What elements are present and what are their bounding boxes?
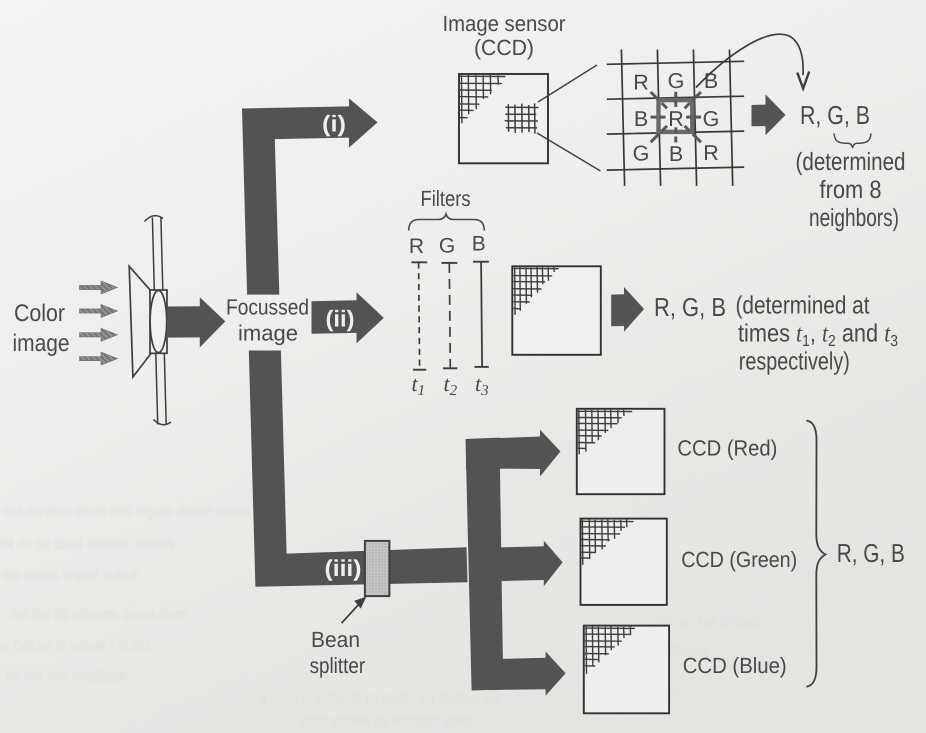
CCD hatch (i) bbox=[460, 74, 505, 123]
CCD Blue box bbox=[584, 626, 669, 714]
branch vertical bar bbox=[466, 438, 504, 691]
beam splitter bbox=[365, 541, 390, 596]
label: determined from 8 neighbors bbox=[796, 148, 906, 232]
underbrace bbox=[834, 134, 871, 148]
lens film strip bbox=[145, 216, 172, 425]
fat arrow (i) output bbox=[752, 94, 786, 135]
CCD box (i) bbox=[459, 74, 548, 163]
arrow to CCD Blue bbox=[472, 652, 566, 696]
labels t1 t2 t3 bbox=[412, 371, 489, 399]
Bayer pattern grid bbox=[607, 50, 744, 186]
CCD sample grid (i) bbox=[505, 103, 539, 133]
CCD Red hatch bbox=[578, 409, 633, 455]
path (iii): lower vertical bar and horizontal bar bbox=[249, 351, 468, 587]
lens element box bbox=[150, 290, 167, 353]
right brace bbox=[806, 421, 825, 687]
8-neighbor rays bbox=[651, 92, 702, 143]
input light ray arrows (hatched) bbox=[80, 281, 118, 365]
CCD Green hatch bbox=[582, 519, 634, 565]
CCD Red box bbox=[577, 409, 665, 494]
lens ellipse bbox=[150, 291, 167, 353]
fat arrow (ii) output bbox=[611, 287, 644, 332]
CCD Green box bbox=[581, 519, 667, 605]
path (ii) arrow bbox=[312, 292, 384, 343]
thick arrow lens to focussed image bbox=[167, 297, 226, 347]
label: determined at times bbox=[736, 292, 899, 376]
selected pixel square bbox=[659, 100, 693, 132]
label: Focussed image bbox=[226, 295, 309, 346]
filter G dashed line bbox=[442, 263, 458, 368]
lens cone bbox=[129, 266, 152, 377]
arrow to CCD Red bbox=[466, 430, 561, 477]
bean splitter pointer arrow bbox=[342, 597, 367, 623]
path (i): vertical bar and arrow bbox=[242, 98, 378, 294]
Bayer letters bbox=[633, 69, 720, 166]
CCD box (ii) bbox=[512, 266, 601, 355]
CCD Blue hatch bbox=[585, 626, 635, 674]
arrow to CCD Green bbox=[470, 541, 563, 587]
curved arrow to R,G,B bbox=[696, 34, 803, 87]
filter R dashed line bbox=[412, 262, 428, 369]
label: Color image bbox=[13, 300, 70, 357]
magnifier connector lines bbox=[537, 65, 601, 171]
filter letters R G B bbox=[409, 233, 486, 259]
overbrace bbox=[409, 214, 485, 231]
filter B solid line bbox=[473, 262, 489, 367]
CCD hatch (ii) bbox=[513, 267, 559, 315]
label: Bean splitter bbox=[310, 627, 366, 678]
label: Image sensor (CCD) bbox=[443, 11, 566, 60]
